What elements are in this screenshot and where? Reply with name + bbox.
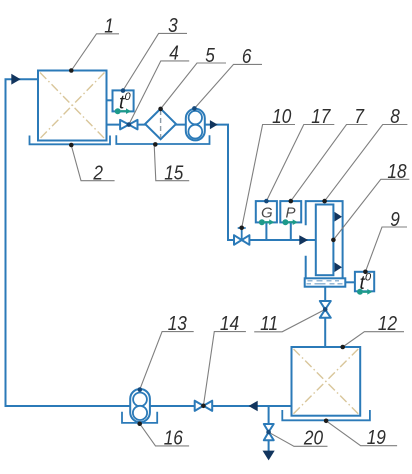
svg-text:18: 18	[387, 161, 407, 184]
svg-text:16: 16	[164, 427, 184, 450]
svg-text:3: 3	[168, 15, 178, 38]
svg-text:2: 2	[93, 162, 104, 185]
svg-text:20: 20	[303, 427, 323, 450]
svg-text:4: 4	[169, 42, 179, 65]
svg-text:15: 15	[164, 162, 184, 185]
svg-text:12: 12	[378, 313, 398, 336]
svg-text:17: 17	[311, 106, 331, 129]
svg-text:0: 0	[125, 91, 132, 103]
svg-text:8: 8	[390, 106, 400, 129]
svg-text:P: P	[286, 205, 296, 222]
svg-text:19: 19	[367, 427, 387, 450]
svg-text:5: 5	[205, 44, 215, 67]
svg-text:13: 13	[168, 313, 188, 336]
svg-text:G: G	[261, 205, 273, 222]
svg-text:6: 6	[242, 46, 252, 69]
svg-text:1: 1	[104, 15, 114, 38]
svg-text:10: 10	[272, 106, 292, 129]
svg-text:9: 9	[390, 208, 400, 231]
svg-text:7: 7	[354, 106, 365, 129]
svg-text:11: 11	[260, 313, 278, 336]
svg-text:14: 14	[220, 313, 239, 336]
